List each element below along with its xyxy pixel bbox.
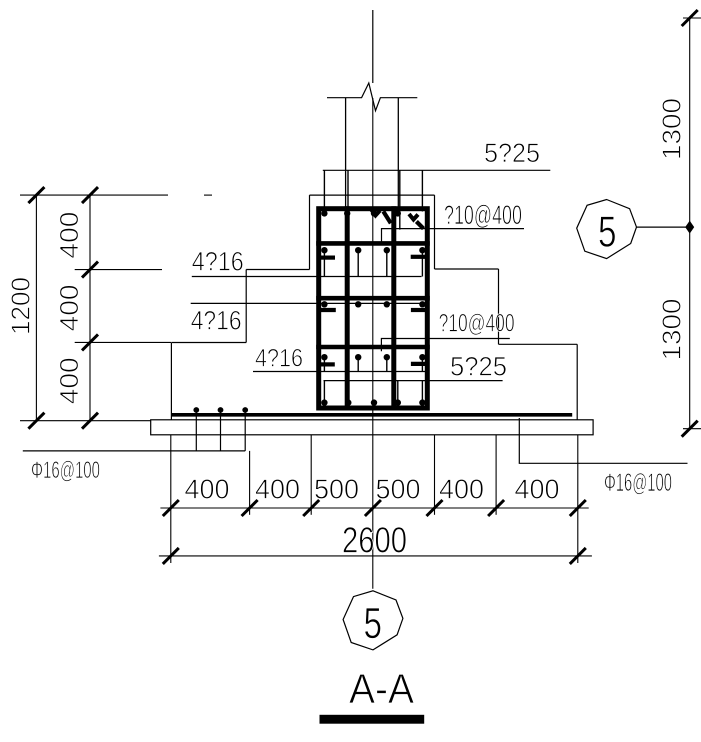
- svg-text:1300: 1300: [657, 299, 687, 361]
- left dim line 1200: [35, 195, 37, 421]
- label ?10@400 bottom leader: [381, 339, 509, 352]
- rebar dot row2-3: [384, 247, 390, 253]
- column break symbol: [327, 83, 417, 111]
- bottom dim line 2600: [159, 555, 592, 557]
- bar stem row2-4: [421, 250, 423, 276]
- bar stem row5-1: [323, 381, 325, 403]
- svg-text:Φ16@100: Φ16@100: [31, 457, 100, 484]
- rebar dot row3-2: [355, 301, 361, 307]
- hook row2 left: [320, 256, 335, 260]
- label 4?16 no1 leader: [192, 276, 422, 278]
- step1 right ledge: [499, 343, 578, 345]
- svg-text:1200: 1200: [6, 277, 36, 335]
- rebar dot row5-2: [345, 399, 351, 405]
- rebar dot row5-1: [321, 399, 327, 405]
- svg-text:400: 400: [185, 474, 230, 505]
- rebar dot row3-3: [384, 301, 390, 307]
- slab bar dot left-2: [218, 407, 224, 413]
- svg-text:?10@400: ?10@400: [444, 200, 522, 230]
- tick bottom dim1-7: [570, 500, 586, 516]
- left dim line 400s: [89, 195, 91, 421]
- svg-text:400: 400: [54, 284, 84, 331]
- slab bar stem left-2: [220, 412, 222, 451]
- label 4?16 no2 leader: [191, 302, 423, 304]
- bottom ext line 6: [577, 435, 579, 563]
- bar stem row4-3: [386, 357, 388, 371]
- bottom ext line 1: [170, 435, 172, 563]
- detail bubble 5 right leader: [637, 226, 692, 228]
- slab bar dot left-1: [193, 407, 199, 413]
- tick bottom dim1-6: [488, 500, 504, 516]
- tick bottom dim1-4: [365, 500, 381, 516]
- bar stem row2-2: [357, 250, 359, 276]
- bottom ext line 2: [249, 451, 251, 515]
- svg-text:4?16: 4?16: [191, 306, 242, 336]
- slab bar dot left-3: [242, 407, 248, 413]
- svg-text:500: 500: [376, 474, 421, 505]
- hatch stroke left: [383, 211, 391, 223]
- step1 left face: [170, 343, 172, 420]
- hook row3 right: [411, 308, 426, 312]
- slab bar stem left-1: [195, 412, 197, 451]
- rebar dot row4-3: [384, 354, 390, 360]
- rebar dot row1-4: [395, 210, 401, 216]
- tick bottom dim1-2: [242, 500, 258, 516]
- svg-text:5: 5: [364, 599, 383, 648]
- label 5?25 bottom leader: [324, 380, 503, 382]
- top column bar 2: [347, 170, 349, 211]
- top column bar 1: [323, 170, 325, 211]
- right dim ext top: [683, 17, 701, 19]
- step3 left face: [309, 195, 311, 269]
- rebar dot row4-4: [419, 354, 425, 360]
- title underline bar: [320, 715, 425, 724]
- stirrup tie 3: [316, 345, 430, 350]
- stirrup tie 1: [316, 241, 430, 246]
- step2 right ledge: [435, 268, 499, 270]
- rebar dot row1-3: [371, 210, 377, 216]
- svg-text:5: 5: [598, 208, 617, 257]
- svg-text:500: 500: [314, 474, 359, 505]
- rebar dot row5-3: [371, 399, 377, 405]
- slab outline: [151, 420, 593, 435]
- right dim mid diamond: [685, 221, 694, 234]
- tick 400s a: [82, 187, 98, 203]
- tick 2600 left: [163, 548, 179, 564]
- right dim ext bottom: [683, 428, 701, 430]
- bottom ext line 4: [434, 435, 436, 515]
- tick bottom dim1-5: [427, 500, 443, 516]
- rebar dot row1-1: [321, 210, 327, 216]
- svg-text:2600: 2600: [342, 519, 407, 560]
- tick 400s c: [82, 334, 98, 350]
- top column bar 3: [399, 170, 401, 229]
- column left face: [345, 98, 347, 208]
- bar stem row2-3: [386, 250, 388, 276]
- left dim ext line mid2: [75, 341, 171, 343]
- svg-text:?10@400: ?10@400: [439, 310, 515, 338]
- tick 400s d: [82, 413, 98, 429]
- rebar dot row5-4: [395, 399, 401, 405]
- tick 1200 bottom: [28, 413, 44, 429]
- label ?10@400 top leader: [382, 229, 525, 242]
- step2 left face: [245, 270, 247, 343]
- bar stem row5-4: [421, 381, 423, 403]
- tick bottom dim1-1: [163, 500, 179, 516]
- rebar dot row2-1: [321, 247, 327, 253]
- bottom rebar phi16 line: [172, 413, 573, 417]
- tick right top: [682, 10, 698, 26]
- section inner vertical 2: [391, 206, 396, 410]
- rebar dot row4-1: [321, 354, 327, 360]
- svg-text:5?25: 5?25: [450, 352, 507, 382]
- hook row4 left: [319, 362, 334, 366]
- hook row4 right: [411, 362, 428, 366]
- tick 1200 top: [28, 187, 44, 203]
- bar stem row4-1: [323, 357, 325, 371]
- rebar dot row3-4: [419, 301, 425, 307]
- label phi16@100 right leader: [519, 418, 687, 463]
- right dim line: [689, 18, 691, 429]
- label phi16@100 left leader: [23, 450, 245, 452]
- column right face: [397, 98, 399, 208]
- svg-text:5?25: 5?25: [484, 138, 540, 168]
- hatch stroke right: [416, 222, 423, 229]
- rebar dot row4-2: [355, 354, 361, 360]
- column centerline upper: [372, 10, 374, 83]
- hatch mark group left: [372, 210, 381, 216]
- svg-text:Φ16@100: Φ16@100: [604, 469, 672, 497]
- left dim ext dash top: [204, 194, 212, 196]
- step3 top ledge: [310, 194, 435, 196]
- bar stem row5-2: [347, 381, 349, 403]
- svg-text:4?16: 4?16: [255, 345, 303, 373]
- rebar dot row5-5: [419, 399, 425, 405]
- hatch mark group right: [409, 214, 418, 220]
- tick bottom dim1-3: [303, 500, 319, 516]
- svg-text:A-A: A-A: [349, 665, 414, 712]
- bottom ext line 3: [310, 435, 312, 515]
- rebar dot row2-4: [419, 247, 425, 253]
- svg-text:4?16: 4?16: [192, 246, 244, 276]
- label 5?25 top leader: [323, 169, 551, 171]
- bar stem row4-4: [421, 357, 423, 371]
- rebar dot row2-2: [355, 247, 361, 253]
- rebar dot row3-1: [321, 301, 327, 307]
- hook row3 left: [318, 308, 336, 312]
- svg-text:400: 400: [255, 474, 300, 505]
- slab bar stem left-3: [244, 412, 246, 451]
- svg-text:1300: 1300: [657, 98, 687, 160]
- left dim ext line top: [20, 194, 168, 196]
- stirrup tie 2: [316, 296, 430, 301]
- step1 left ledge: [171, 342, 246, 344]
- top column bar 4: [421, 170, 423, 211]
- detail bubble 5 bottom outline: [343, 591, 403, 650]
- svg-text:400: 400: [54, 357, 84, 404]
- svg-text:400: 400: [439, 474, 484, 505]
- step2 right face: [498, 269, 500, 344]
- bar stem row2-1: [323, 250, 325, 276]
- bar stem row4-2: [357, 357, 359, 371]
- left dim ext line bottom: [20, 420, 151, 422]
- detail bubble 5 right outline: [577, 200, 637, 259]
- section outer rect: [319, 209, 428, 408]
- tick right bottom: [682, 421, 698, 437]
- svg-text:400: 400: [54, 212, 84, 259]
- tick 400s b: [82, 262, 98, 278]
- step2 left ledge: [246, 269, 309, 271]
- step3 right face: [434, 195, 436, 269]
- left dim ext line mid1: [75, 269, 162, 271]
- bottom dim line 1: [160, 507, 588, 509]
- bar stem row5-3: [397, 381, 399, 403]
- column centerline main: [372, 98, 374, 589]
- rebar dot row1-2: [344, 210, 350, 216]
- svg-text:400: 400: [515, 474, 560, 505]
- bottom ext line 5: [495, 435, 497, 515]
- step1 right face: [576, 344, 578, 420]
- hook row2 right: [411, 255, 426, 259]
- section inner vertical 1: [345, 206, 350, 410]
- label 4?16 no3 leader: [253, 371, 428, 373]
- tick 2600 right: [570, 548, 586, 564]
